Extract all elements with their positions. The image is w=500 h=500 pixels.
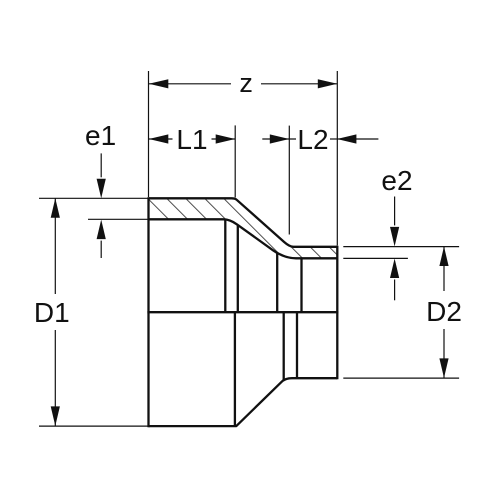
dimension D2 line <box>443 247 445 292</box>
dimension e2 leader <box>394 197 396 226</box>
dimension z line <box>149 83 231 85</box>
dimension D2 top arrow <box>439 247 448 267</box>
small socket shoulder edge (section) <box>276 253 278 313</box>
cone start edge (section) <box>237 225 239 313</box>
dimension e1 lower tail <box>100 241 102 258</box>
large socket shoulder edge (section) <box>224 220 226 312</box>
svg-text:D1: D1 <box>34 297 70 328</box>
extension line right face <box>336 71 338 246</box>
taper tangent edge (lower view) <box>283 312 285 381</box>
extension line D2 bottom <box>343 377 459 379</box>
center axis line <box>147 311 338 313</box>
dimension e2 lower tail <box>394 280 396 301</box>
dimension e1 lower arrow <box>97 220 106 240</box>
dimension L2 right arrow (outside) <box>337 134 357 143</box>
dimension D1 line <box>54 198 56 294</box>
dimension L2 left arrow (outside) <box>270 134 290 143</box>
svg-text:L1: L1 <box>176 124 207 155</box>
small end socket edge (lower view) <box>296 312 298 378</box>
extension line L2 socket depth <box>288 126 290 235</box>
extension line left face <box>148 71 150 197</box>
dimension D1 bottom arrow <box>51 406 60 426</box>
extension line e1 bottom <box>88 218 148 220</box>
svg-text:e1: e1 <box>85 120 116 151</box>
dimension e1 upper arrow <box>97 179 106 199</box>
dimension D2 bottom arrow <box>439 358 448 378</box>
dimension L1 right arrow <box>216 134 236 143</box>
svg-text:L2: L2 <box>297 124 328 155</box>
fitting body inner bore top line <box>149 219 338 258</box>
svg-text:D2: D2 <box>426 296 462 327</box>
dimension z right arrow <box>318 79 338 88</box>
dimension e1 leader <box>100 153 102 177</box>
dimension L1 line <box>149 138 173 140</box>
fitting body outer top profile <box>149 198 338 247</box>
extension line e2 bottom <box>343 257 408 259</box>
left end face <box>147 197 149 427</box>
right end face <box>336 246 338 380</box>
svg-text:z: z <box>239 68 253 98</box>
outer cylinder end edge (lower view) <box>234 312 236 426</box>
extension line D1 top / e1 top <box>39 197 148 199</box>
section hatching of wall <box>122 191 410 270</box>
dimension L2 right tail <box>337 138 379 140</box>
dimension e2 upper arrow <box>390 227 399 247</box>
extension line e2 top / D2 top <box>343 246 459 248</box>
fitting body bottom outer profile <box>149 378 338 426</box>
dimension z left arrow <box>149 79 169 88</box>
dimension L1 left arrow <box>149 134 169 143</box>
extension line D1 bottom <box>39 425 148 427</box>
dimension e2 lower arrow <box>390 259 399 279</box>
svg-text:e2: e2 <box>381 165 412 196</box>
dimension L2 line stubs <box>262 138 296 140</box>
extension line L1 socket depth <box>234 125 236 197</box>
dimension D1 top arrow <box>51 198 60 218</box>
small socket end edge (section) <box>300 258 302 312</box>
